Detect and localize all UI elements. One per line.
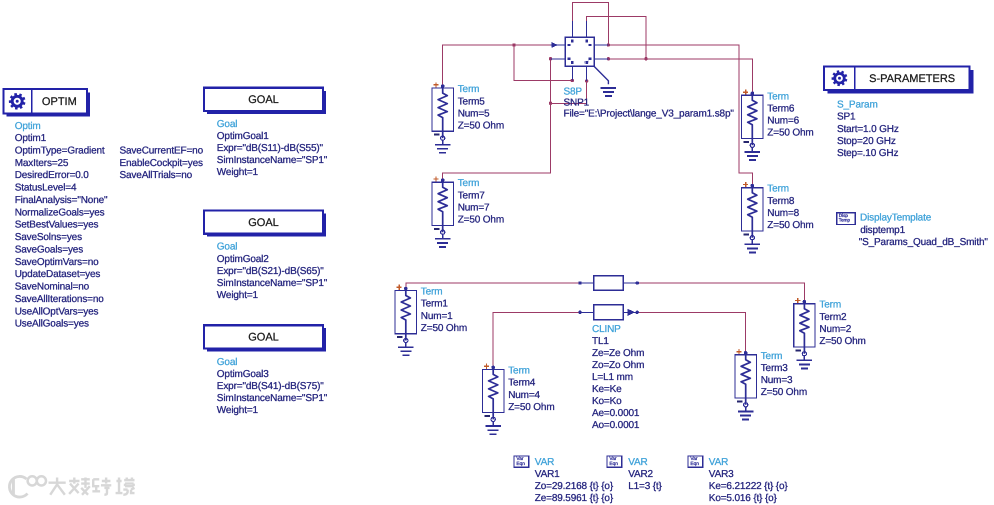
svg-text:Ao=0.0001: Ao=0.0001: [592, 420, 640, 431]
svg-text:Start=1.0 GHz: Start=1.0 GHz: [837, 124, 899, 135]
svg-text:Z=50 Ohm: Z=50 Ohm: [508, 402, 554, 413]
svg-text:Num=6: Num=6: [767, 116, 799, 127]
svg-text:SaveAllIterations=no: SaveAllIterations=no: [15, 294, 105, 305]
svg-text:SaveGoals=yes: SaveGoals=yes: [15, 244, 84, 255]
svg-text:Z=50 Ohm: Z=50 Ohm: [421, 323, 467, 334]
svg-text:SP1: SP1: [837, 112, 856, 123]
svg-text:FinalAnalysis="None": FinalAnalysis="None": [15, 195, 108, 206]
svg-text:Temp: Temp: [839, 218, 851, 223]
ground of Term4: [492, 421, 494, 426]
S8P box SNP1: [565, 37, 594, 66]
wire S8P left pin2 down to term7: [443, 59, 551, 181]
svg-text:Term: Term: [767, 184, 789, 195]
term Term5: [432, 82, 453, 153]
svg-text:Ke=6.21222 {t} {o}: Ke=6.21222 {t} {o}: [709, 481, 789, 492]
svg-text:UseAllOptVars=yes: UseAllOptVars=yes: [15, 306, 99, 317]
term Term6 labels: [767, 91, 813, 138]
svg-text:VAR: VAR: [709, 457, 728, 468]
svg-text:Z=50 Ohm: Z=50 Ohm: [458, 121, 504, 132]
svg-text:DisplayTemplate: DisplayTemplate: [860, 213, 932, 224]
svg-text:SimInstanceName="SP1": SimInstanceName="SP1": [217, 393, 328, 404]
GOAL3 parameters: [217, 357, 328, 416]
CLINP labels: [592, 324, 644, 431]
svg-text:DesiredError=0.0: DesiredError=0.0: [15, 170, 90, 181]
svg-text:disptemp1: disptemp1: [860, 225, 905, 236]
svg-text:Optim: Optim: [15, 121, 41, 132]
svg-text:GOAL: GOAL: [248, 217, 279, 229]
GOAL box: [204, 325, 326, 351]
svg-text:GOAL: GOAL: [248, 332, 279, 344]
S-PARAMETERS box: [824, 66, 973, 93]
svg-text:Weight=1: Weight=1: [217, 167, 259, 178]
GOAL1 parameters: [217, 119, 328, 178]
svg-text:Z=50 Ohm: Z=50 Ohm: [458, 215, 504, 226]
svg-text:Eqn: Eqn: [609, 461, 618, 467]
term Term2 labels: [819, 300, 865, 347]
svg-text:Term: Term: [819, 300, 841, 311]
svg-text:OptimGoal1: OptimGoal1: [217, 131, 269, 142]
OPTIM parameter list: [15, 121, 204, 330]
svg-text:Term3: Term3: [761, 363, 789, 374]
ground of Term3: [745, 407, 747, 412]
wire S8P right pin4 to term6: [608, 59, 752, 94]
svg-text:Ze=89.5961 {t} {o}: Ze=89.5961 {t} {o}: [535, 493, 614, 504]
OPTIM box: [3, 89, 90, 117]
svg-text:S8P: S8P: [564, 87, 583, 98]
svg-text:Ko=5.016 {t} {o}: Ko=5.016 {t} {o}: [709, 493, 778, 504]
svg-text:SaveCurrentEF=no: SaveCurrentEF=no: [120, 145, 204, 156]
svg-text:VAR2: VAR2: [628, 469, 653, 480]
svg-text:SimInstanceName="SP1": SimInstanceName="SP1": [217, 155, 328, 166]
watermark logo: [9, 476, 134, 497]
svg-text:OptimType=Gradient: OptimType=Gradient: [15, 146, 105, 157]
term Term5 labels: [458, 84, 504, 131]
svg-text:Goal: Goal: [217, 242, 238, 253]
svg-text:SimInstanceName="SP1": SimInstanceName="SP1": [217, 278, 328, 289]
term Term8: [742, 182, 763, 253]
term Term2: [794, 298, 815, 369]
svg-text:Term: Term: [458, 178, 480, 189]
svg-text:Term2: Term2: [819, 312, 847, 323]
S8P inner pin marks: [568, 40, 592, 65]
svg-text:Term: Term: [767, 91, 789, 102]
svg-text:Optim1: Optim1: [15, 133, 47, 144]
term Term4 labels: [508, 365, 554, 412]
ground (S8P ref): [601, 87, 617, 89]
svg-text:Term: Term: [761, 351, 783, 362]
GOAL box: [204, 88, 326, 114]
svg-text:SNP1: SNP1: [564, 97, 590, 108]
DisplayTemplate icon: [837, 213, 855, 225]
svg-text:Z=50 Ohm: Z=50 Ohm: [767, 128, 813, 139]
svg-text:OptimGoal3: OptimGoal3: [217, 369, 269, 380]
S-PARAMETERS gear icon: [832, 71, 847, 87]
term Term3 labels: [761, 351, 807, 398]
watermark text: [49, 478, 135, 495]
svg-text:Goal: Goal: [217, 119, 238, 130]
VAR3 labels: [709, 457, 789, 504]
wire term4 to term3 through CLin bottom: [493, 312, 746, 366]
svg-text:Eqn: Eqn: [516, 461, 525, 467]
VAR1 icon: [514, 456, 529, 467]
svg-text:VAR1: VAR1: [535, 469, 560, 480]
GOAL box: [204, 211, 326, 237]
term Term7: [432, 176, 453, 247]
svg-text:CLINP: CLINP: [592, 324, 621, 335]
term Term1 labels: [421, 287, 467, 334]
GOAL2 parameters: [217, 242, 328, 301]
wire term1 to term2 through CLin top: [406, 283, 805, 302]
svg-text:Ze=Ze Ohm: Ze=Ze Ohm: [592, 348, 644, 359]
svg-text:Num=7: Num=7: [458, 203, 490, 214]
S8P pin1 arrow: [552, 43, 557, 47]
svg-text:EnableCockpit=yes: EnableCockpit=yes: [120, 158, 203, 169]
svg-text:SaveAllTrials=no: SaveAllTrials=no: [120, 170, 193, 181]
S8P pin stubs: [551, 21, 609, 81]
svg-text:Ko=Ko: Ko=Ko: [592, 396, 622, 407]
svg-text:Term4: Term4: [508, 378, 536, 389]
svg-text:Num=3: Num=3: [761, 375, 793, 386]
svg-text:Eqn: Eqn: [690, 461, 699, 467]
svg-text:OPTIM: OPTIM: [42, 96, 77, 108]
svg-text:S-PARAMETERS: S-PARAMETERS: [869, 73, 955, 85]
svg-text:Term1: Term1: [421, 299, 449, 310]
svg-text:VAR3: VAR3: [709, 469, 734, 480]
VAR3 icon: [688, 456, 703, 467]
term Term4: [483, 364, 504, 435]
wire top loop pin7 to pin8 node: [572, 2, 608, 44]
svg-text:File="E:\Project\lange_V3_para: File="E:\Project\lange_V3_param1.s8p": [564, 108, 735, 119]
svg-text:Stop=20 GHz: Stop=20 GHz: [837, 136, 896, 147]
svg-text:Expr="dB(S41)-dB(S75)": Expr="dB(S41)-dB(S75)": [217, 381, 325, 392]
CLINP TL1 lower line: [578, 305, 639, 320]
S8P labels: [564, 87, 735, 120]
wire S8P right pin3 to term8: [608, 45, 752, 187]
svg-text:MaxIters=25: MaxIters=25: [15, 158, 69, 169]
ground of Term5: [442, 140, 444, 145]
svg-text:StatusLevel=4: StatusLevel=4: [15, 183, 77, 194]
ground of Term8: [751, 240, 753, 245]
CLINP TL1 upper line: [578, 276, 639, 290]
svg-text:Term: Term: [421, 287, 443, 298]
svg-text:GOAL: GOAL: [248, 94, 279, 106]
ground of Term6: [751, 147, 753, 152]
svg-text:Z=50 Ohm: Z=50 Ohm: [761, 387, 807, 398]
VAR2 labels: [628, 457, 662, 492]
svg-text:Goal: Goal: [217, 357, 238, 368]
svg-text:Num=8: Num=8: [767, 208, 799, 219]
wire junction branch to S8P pin5: [514, 45, 572, 81]
svg-text:Num=4: Num=4: [508, 390, 540, 401]
svg-text:Zo=Zo Ohm: Zo=Zo Ohm: [592, 360, 644, 371]
S-PARAMETERS parameter list: [837, 100, 899, 160]
ground of Term1: [405, 343, 407, 348]
wire SNP loop to pin6: [551, 81, 587, 104]
svg-text:Num=5: Num=5: [458, 109, 490, 120]
svg-text:Term6: Term6: [767, 104, 795, 115]
svg-text:Expr="dB(S11)-dB(S55)": Expr="dB(S11)-dB(S55)": [217, 143, 324, 154]
svg-text:Term8: Term8: [767, 196, 795, 207]
svg-text:Term7: Term7: [458, 190, 486, 201]
svg-text:VAR: VAR: [535, 457, 554, 468]
VAR1 labels: [535, 457, 614, 504]
term Term8 labels: [767, 184, 813, 231]
svg-text:Term5: Term5: [458, 96, 486, 107]
svg-text:OptimGoal2: OptimGoal2: [217, 254, 269, 265]
svg-text:VAR: VAR: [628, 457, 647, 468]
wire term5 to S8P pin1: [443, 45, 551, 86]
svg-text:Ae=0.0001: Ae=0.0001: [592, 408, 640, 419]
svg-text:Ke=Ke: Ke=Ke: [592, 384, 622, 395]
term Term1: [395, 285, 416, 356]
term Term7 labels: [458, 178, 504, 225]
svg-text:Z=50 Ohm: Z=50 Ohm: [767, 220, 813, 231]
VAR2 icon: [607, 456, 622, 467]
ground of Term2: [803, 356, 805, 361]
svg-text:NormalizeGoals=yes: NormalizeGoals=yes: [15, 207, 105, 218]
svg-text:Weight=1: Weight=1: [217, 405, 259, 416]
svg-text:UseAllGoals=yes: UseAllGoals=yes: [15, 319, 89, 330]
svg-text:Num=1: Num=1: [421, 311, 453, 322]
svg-text:Term: Term: [458, 84, 480, 95]
term Term3: [735, 349, 756, 420]
S8P ref pin diagonal: [594, 66, 608, 84]
term Term6: [742, 90, 763, 161]
svg-text:L1=3 {t}: L1=3 {t}: [628, 481, 662, 492]
svg-text:S_Param: S_Param: [837, 100, 878, 111]
svg-text:UpdateDataset=yes: UpdateDataset=yes: [15, 269, 101, 280]
svg-text:SetBestValues=yes: SetBestValues=yes: [15, 220, 99, 231]
ground of Term7: [442, 234, 444, 239]
svg-text:SaveOptimVars=no: SaveOptimVars=no: [15, 257, 99, 268]
svg-text:Zo=29.2168 {t} {o}: Zo=29.2168 {t} {o}: [535, 481, 614, 492]
DisplayTemplate labels: [859, 213, 989, 249]
svg-text:Expr="dB(S21)-dB(S65)": Expr="dB(S21)-dB(S65)": [217, 266, 325, 277]
wire top loop pin8? to right pin node: [587, 16, 646, 58]
svg-text:Term: Term: [508, 365, 530, 376]
svg-text:Weight=1: Weight=1: [217, 290, 259, 301]
svg-text:TL1: TL1: [592, 336, 609, 347]
svg-text:"S_Params_Quad_dB_Smith": "S_Params_Quad_dB_Smith": [859, 237, 989, 248]
svg-text:Z=50 Ohm: Z=50 Ohm: [819, 336, 865, 347]
svg-text:SaveNominal=no: SaveNominal=no: [15, 282, 90, 293]
OPTIM gear icon: [9, 93, 25, 109]
svg-text:Step=.10 GHz: Step=.10 GHz: [837, 148, 898, 159]
svg-text:Num=2: Num=2: [819, 324, 851, 335]
svg-text:SaveSolns=yes: SaveSolns=yes: [15, 232, 82, 243]
svg-text:L=L1 mm: L=L1 mm: [592, 372, 633, 383]
